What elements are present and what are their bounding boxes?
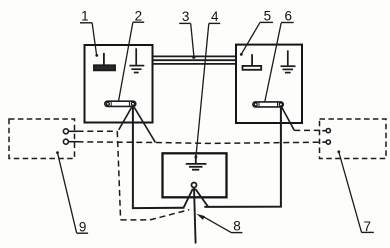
svg-text:2: 2 — [135, 9, 143, 24]
svg-text:8: 8 — [233, 219, 241, 234]
right dashed equipment box (item 7) — [320, 119, 387, 159]
label 4 — [195, 9, 221, 159]
fuse / coupling element (item 2) — [105, 101, 136, 106]
dashed wire (long line lower terminals left-right) — [78, 142, 323, 144]
svg-text:6: 6 — [284, 9, 292, 24]
svg-text:3: 3 — [182, 9, 190, 24]
dashed wire (right diagonal junction to upper-right terminal) — [294, 129, 322, 131]
label 2 — [119, 9, 145, 101]
label 5 — [240, 9, 273, 56]
shielded enclosure box (right receiver screen, item 5) — [236, 45, 302, 123]
left dashed equipment box (item 9) — [9, 119, 75, 159]
ground symbol (inside center box, item 4) — [186, 155, 207, 170]
dashed wire (corner vertical drop) — [117, 131, 120, 220]
terminal T3 (right box upper) — [322, 129, 330, 133]
electrode symbol (inside right box) — [243, 54, 262, 70]
label 8 with arrow — [196, 214, 242, 234]
label 7 — [337, 150, 373, 233]
ground symbol (inside left box) — [129, 48, 144, 72]
probe terminal circle (item 8 gap) — [192, 183, 197, 188]
dashed wire (upper-left terminal to corner) — [78, 130, 118, 132]
wire (right fuse to dashed line diagonal) — [282, 107, 295, 131]
shielded enclosure box (item 1 area, left transmitter screen) — [85, 45, 153, 123]
wire (fan right leg from circle to bottom bus) — [195, 189, 208, 207]
center screen box (item 4 area) — [163, 153, 227, 197]
cable bundle (item 3, three parallel wires) — [153, 56, 237, 64]
wire (vertical probe lead going down, item 8) — [194, 187, 196, 243]
svg-text:7: 7 — [364, 219, 372, 234]
wire (fan left leg from circle to bottom bus) — [184, 189, 193, 208]
fuse / coupling element (item 6) — [253, 102, 283, 107]
wire (left fuse to long dashed line diagonal) — [134, 107, 155, 142]
electrode symbol (item 1) — [94, 53, 115, 70]
terminal T1 (left box upper) — [63, 129, 77, 134]
wire (solid bottom bus connecting both boxes) — [133, 106, 281, 208]
dashed wire (bottom run to probe lead) — [121, 210, 190, 220]
label 3 — [179, 9, 195, 59]
terminal T4 (right box lower) — [322, 140, 330, 144]
svg-text:4: 4 — [211, 9, 219, 24]
label 1 — [80, 9, 98, 57]
label 9 — [56, 151, 88, 234]
terminal T2 (left box lower) — [63, 139, 77, 144]
ground symbol (inside right box) — [281, 50, 296, 72]
svg-text:1: 1 — [81, 9, 89, 24]
wire (left fuse to dashed corner diagonal) — [119, 107, 132, 130]
label 6 — [265, 9, 294, 102]
svg-text:9: 9 — [79, 220, 87, 235]
svg-text:5: 5 — [264, 9, 272, 24]
